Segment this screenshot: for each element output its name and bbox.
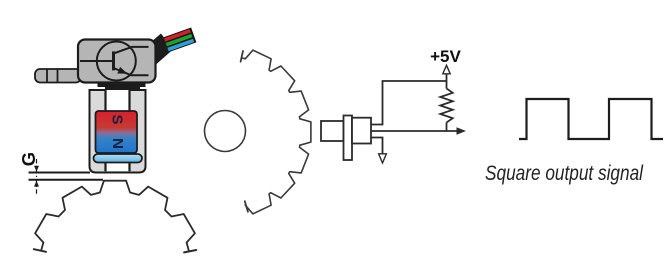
svg-text:+5V: +5V [430, 47, 461, 66]
svg-text:G: G [18, 152, 39, 166]
svg-text:N: N [109, 138, 126, 149]
svg-text:S: S [109, 114, 126, 124]
svg-text:Square output signal: Square output signal [485, 161, 644, 185]
